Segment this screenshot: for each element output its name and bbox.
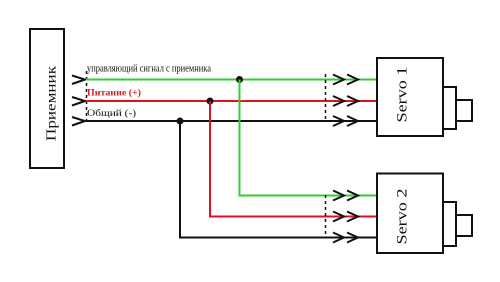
junction node on power wire <box>207 98 214 105</box>
connector arrows: Servo 1 ground pin <box>333 116 358 126</box>
receiver box (Приемник) <box>30 29 64 168</box>
junction node on signal wire <box>236 76 243 83</box>
servo 2 output shaft <box>456 215 472 236</box>
servo 1 output shaft <box>456 100 472 121</box>
svg-text:управляющий сигнал с приемника: управляющий сигнал с приемника <box>87 64 211 75</box>
wire: ground branch down to Servo 2 (black vertical) <box>179 121 181 238</box>
servo 2 mount flange <box>443 202 456 246</box>
svg-text:Приемник: Приемник <box>45 66 60 141</box>
svg-text:Servo 1: Servo 1 <box>395 67 411 123</box>
pin arrow: ground output of receiver <box>72 117 85 126</box>
svg-text:Общий (-): Общий (-) <box>87 108 136 118</box>
connector arrows: Servo 1 signal pin <box>333 75 358 85</box>
servo 2 body <box>377 174 443 254</box>
svg-text:Питание (+): Питание (+) <box>87 88 141 98</box>
pin arrow: signal output of receiver <box>72 76 85 85</box>
svg-text:Servo 2: Servo 2 <box>395 189 411 245</box>
dashed connector line at receiver <box>86 71 88 121</box>
wire: power branch to Servo 2 (red horizontal) <box>209 216 377 218</box>
junction node on ground wire <box>177 118 184 125</box>
wire: signal branch to Servo 2 (green horizontal) <box>239 195 378 197</box>
connector arrows: Servo 2 power pin <box>333 212 358 222</box>
wire: signal receiver to Servo 1 (green) <box>86 79 377 81</box>
dashed connector line at Servo 2 <box>325 195 327 238</box>
pin arrow: power output of receiver <box>72 97 85 106</box>
connector arrows: Servo 2 signal pin <box>333 191 358 201</box>
wire: power branch down to Servo 2 (red vertical) <box>209 101 211 217</box>
servo 1 body <box>377 58 443 136</box>
wire: power receiver to Servo 1 (red) <box>86 100 377 102</box>
servo 1 mount flange <box>443 87 456 129</box>
wire: signal branch down to Servo 2 (green vertical) <box>239 80 241 196</box>
connector arrows: Servo 1 power pin <box>333 96 358 106</box>
wire: ground branch to Servo 2 (black horizontal) <box>179 237 377 239</box>
connector arrows: Servo 2 ground pin <box>333 233 358 243</box>
dashed connector line at Servo 1 <box>325 74 327 121</box>
wire: ground receiver to Servo 1 (black) <box>86 120 377 122</box>
